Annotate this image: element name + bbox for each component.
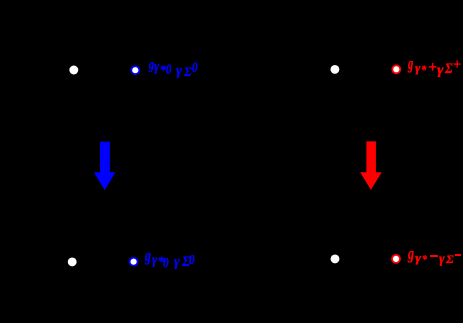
data point: red open circle (white core), top-right <box>392 65 400 73</box>
label g_{&#947;*0&#947;&#931;^0} top-left (blue) <box>0 0 463 1</box>
data point: white filled dot, top-right <box>330 65 339 74</box>
label g_{&#947;*+&#947;&#931;^+} top-right (red) <box>0 0 463 1</box>
data point: blue open circle (white core), bottom-left <box>130 258 138 266</box>
data point: blue open circle (white core), top-left <box>131 66 139 74</box>
label g_{&#947;*0&#947;&#931;^0} bottom-left (blue) <box>0 0 463 1</box>
data point: white filled dot, top-left <box>69 66 78 75</box>
red down arrow <box>360 141 382 190</box>
data point: white filled dot, bottom-left <box>68 257 77 266</box>
data point: red open circle (white core), bottom-right <box>392 255 400 263</box>
label g_{&#947;*-&#947;&#931;^-} bottom-right (red) <box>0 0 463 1</box>
blue down arrow <box>94 142 116 191</box>
data point: white filled dot, bottom-right <box>331 254 340 263</box>
